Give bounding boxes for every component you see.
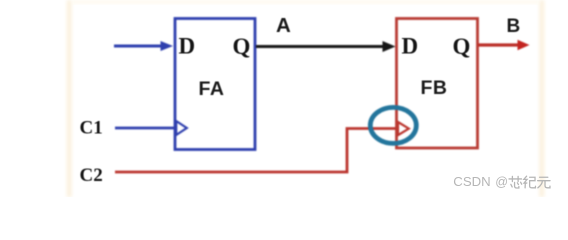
- svg-text:FB: FB: [421, 77, 448, 99]
- svg-text:Q: Q: [453, 34, 471, 59]
- svg-text:FA: FA: [199, 78, 225, 100]
- svg-text:Q: Q: [233, 34, 251, 59]
- svg-text:A: A: [276, 14, 291, 37]
- svg-text:CSDN: CSDN: [453, 174, 490, 189]
- svg-text:@: @: [495, 175, 508, 189]
- svg-text:B: B: [507, 16, 521, 37]
- svg-text:D: D: [402, 34, 419, 59]
- svg-text:C2: C2: [80, 165, 103, 186]
- svg-text:C1: C1: [80, 118, 103, 139]
- svg-text:D: D: [179, 34, 196, 59]
